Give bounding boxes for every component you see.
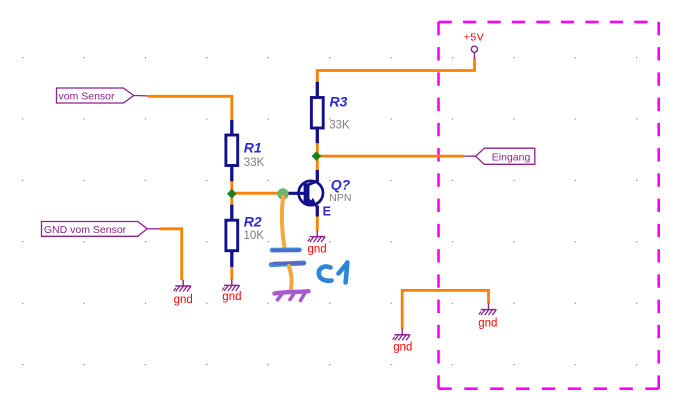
svg-text:33K: 33K [244,157,265,169]
transistor Q? [299,170,323,216]
resistor R1 [226,120,238,181]
hand-written label C1 [319,263,348,283]
junction dot (base node) [277,188,288,199]
svg-text:Q?: Q? [331,177,351,193]
capacitor C1 bottom lead [289,266,292,291]
wire +5V rail to R3 top [317,58,474,83]
supply +5V [464,32,484,59]
svg-text:gnd: gnd [478,317,497,329]
flag GND vom Sensor [42,222,161,237]
ground bottom-left of pair [393,329,410,341]
svg-text:GND vom Sensor: GND vom Sensor [44,224,127,236]
svg-text:vom Sensor: vom Sensor [59,91,116,103]
resistor R3 [311,82,323,143]
wire from vom Sensor flag to R1 top [148,96,232,120]
svg-text:gnd: gnd [308,243,327,255]
wire GND vom Sensor to gnd [160,229,182,280]
dashed region outline [439,22,659,389]
ground below R2 [222,279,239,291]
svg-text:gnd: gnd [222,291,241,303]
wire base lead (navy) [285,192,305,195]
capacitor C1 top plate [272,248,300,253]
svg-text:10K: 10K [244,230,265,242]
wire emitter to gnd [316,216,319,231]
svg-text:33K: 33K [329,119,350,131]
ground at emitter [308,230,325,242]
ground left (GND vom Sensor) [174,280,191,292]
ground bottom-right of pair [479,303,496,315]
svg-text:R1: R1 [244,140,262,156]
svg-text:R3: R3 [330,94,348,110]
grid dots [22,57,638,366]
svg-text:+5V: +5V [464,32,484,44]
flag vom Sensor [57,88,148,103]
wire R3 bottom to collector [316,143,319,171]
svg-text:R2: R2 [244,213,262,229]
capacitor C1 bottom plate [271,263,304,265]
hand-drawn ground stroke [275,291,309,300]
svg-text:gnd: gnd [393,342,412,354]
svg-text:E: E [323,205,331,219]
pen speck [336,273,338,275]
junction diamond at R1/R2 node [227,189,237,199]
wire junction to base node [232,192,280,195]
wire R2 bottom to gnd [230,266,233,279]
flag Eingang [464,148,535,164]
svg-text:NPN: NPN [329,192,351,204]
wire bottom-right gnd bridge [402,290,488,329]
wire R1 bottom / R2 top junction column [230,181,233,206]
resistor R2 [226,205,238,267]
wire Eingang net [319,155,465,158]
svg-text:Eingang: Eingang [492,151,531,163]
junction diamond at Eingang node [312,151,322,161]
svg-text:gnd: gnd [174,294,193,306]
hand-drawn capacitor C1 : top lead [282,197,285,248]
